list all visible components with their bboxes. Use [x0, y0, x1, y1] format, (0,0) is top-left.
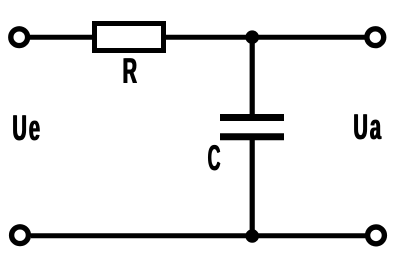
- terminal top-left: [11, 29, 28, 46]
- terminal bottom-left: [12, 227, 29, 244]
- wire bottom: [31, 233, 366, 238]
- svg-text:Ua: Ua: [354, 106, 384, 147]
- svg-text:C: C: [208, 137, 221, 178]
- terminal top-right: [367, 29, 384, 46]
- label R: [122, 50, 137, 91]
- svg-text:R: R: [123, 50, 137, 91]
- resistor R1: [95, 24, 164, 51]
- svg-text:Ue: Ue: [13, 107, 43, 148]
- wire top-right (node to terminal): [252, 35, 365, 40]
- node junction bottom: [245, 229, 259, 243]
- capacitor C1 top plate: [220, 114, 284, 121]
- terminal bottom-right: [368, 227, 385, 244]
- node junction top: [245, 30, 259, 44]
- wire top-middle (R to node): [164, 35, 252, 40]
- wire vertical (node to capacitor): [250, 37, 255, 118]
- label Ua (output voltage): [353, 106, 384, 147]
- wire top-left (terminal to R): [30, 35, 94, 40]
- label C: [207, 137, 221, 178]
- wire vertical (capacitor to bottom node): [250, 137, 255, 236]
- label Ue (input voltage): [12, 107, 43, 148]
- capacitor C1 bottom plate: [220, 133, 284, 140]
